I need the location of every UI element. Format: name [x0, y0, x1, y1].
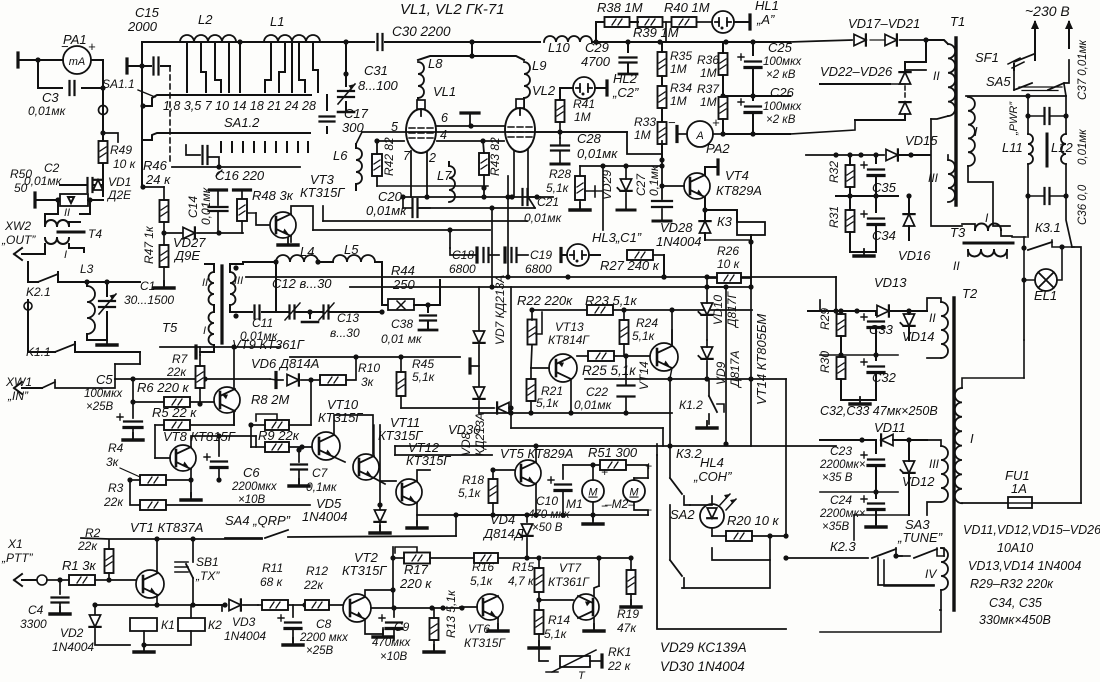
transformer T1 core — [954, 38, 957, 205]
svg-text:C1: C1 — [140, 279, 155, 293]
svg-text:470мкх: 470мкх — [372, 637, 412, 649]
capacitor C31 variable — [338, 91, 354, 97]
svg-text:C26: C26 — [770, 85, 795, 100]
wire VT4 collector — [705, 167, 716, 175]
svg-text:R35: R35 — [670, 49, 692, 63]
fuse FU1 — [1008, 497, 1032, 508]
svg-text:R34: R34 — [670, 81, 692, 95]
svg-text:C34: C34 — [872, 228, 896, 243]
diode VD22 — [820, 83, 890, 85]
motor M2 — [623, 480, 645, 502]
svg-text:A: A — [695, 130, 703, 142]
svg-text:VL2: VL2 — [532, 83, 556, 98]
svg-text:+: + — [645, 459, 652, 473]
svg-text:C17: C17 — [344, 106, 369, 121]
svg-text:VD11,VD12,VD15–VD26: VD11,VD12,VD15–VD26 — [963, 523, 1100, 537]
wire y197 — [403, 196, 553, 198]
svg-text:R37: R37 — [697, 82, 720, 96]
led HL4 — [700, 504, 724, 528]
svg-text:К2.3: К2.3 — [830, 539, 857, 554]
wire VD12 k23 row — [854, 514, 909, 516]
resistor R31 — [846, 210, 855, 232]
svg-text:0,01мк: 0,01мк — [524, 211, 563, 225]
resistor R43 — [479, 153, 489, 175]
svg-text:SA4 „QRP”: SA4 „QRP” — [225, 513, 291, 528]
resistor R41 — [556, 100, 565, 122]
svg-text:VT14 КТ805БМ: VT14 КТ805БМ — [754, 314, 769, 405]
wire R44 to bus — [428, 280, 440, 305]
svg-text:XW2: XW2 — [4, 219, 31, 233]
wire emitter row — [95, 604, 222, 606]
svg-text:1N4004: 1N4004 — [302, 509, 348, 524]
svg-text:VD17–VD21: VD17–VD21 — [848, 16, 920, 31]
svg-text:R19: R19 — [617, 607, 639, 621]
diode VD4 — [526, 515, 528, 522]
wire VT3 collector — [291, 206, 313, 230]
svg-text:L1: L1 — [270, 14, 284, 29]
wire VL2 pins — [513, 150, 515, 197]
svg-text:C7: C7 — [312, 466, 329, 480]
resistor R2 — [105, 549, 114, 573]
svg-text:24 к: 24 к — [145, 172, 171, 187]
svg-text:C37 0,01мк: C37 0,01мк — [1077, 39, 1089, 100]
connector XW2 — [14, 248, 45, 260]
svg-text:EL1: EL1 — [1034, 288, 1057, 303]
switch SB1 — [175, 562, 188, 572]
diode VD17 — [854, 34, 866, 45]
capacitor C10 electrolytic — [555, 483, 571, 485]
resistor R38 — [605, 17, 630, 27]
svg-text:II: II — [933, 69, 940, 83]
svg-text:×35 В: ×35 В — [822, 472, 853, 484]
resistor R28 — [575, 176, 585, 200]
svg-text:1А: 1А — [1011, 481, 1027, 496]
capacitor C7 — [291, 465, 307, 470]
transformer T5 winding I — [209, 312, 215, 345]
transformer T2 winding III — [941, 446, 948, 502]
transistor VT5 — [515, 460, 541, 486]
resistor R8 — [265, 420, 289, 430]
wire mid node — [836, 195, 898, 197]
capacitor C9 electrolytic — [386, 621, 402, 623]
switch K1.2 — [708, 379, 710, 396]
transformer T1 winding I — [968, 97, 975, 166]
svg-text:КТ361Г: КТ361Г — [548, 575, 590, 589]
wire mid right col — [725, 287, 727, 444]
wire rail y310 — [532, 309, 752, 311]
svg-text:R46: R46 — [143, 158, 168, 173]
svg-text:R23 5,1к: R23 5,1к — [585, 293, 638, 308]
svg-text:47к: 47к — [617, 621, 637, 635]
diode VD5 — [379, 505, 381, 510]
svg-text:6800: 6800 — [525, 262, 552, 276]
diode VD7 — [478, 287, 480, 331]
capacitor C11 — [243, 311, 252, 313]
diode VD8 — [473, 387, 484, 399]
svg-text:1М: 1М — [700, 66, 717, 80]
svg-text:3к: 3к — [361, 375, 375, 389]
svg-text:50: 50 — [14, 181, 28, 195]
svg-text:–М2–: –М2– — [604, 497, 635, 511]
svg-text:×25В: ×25В — [306, 645, 334, 657]
svg-text:1М: 1М — [574, 110, 591, 124]
svg-text:VT14: VT14 — [637, 361, 651, 390]
wire T1 I bottom — [968, 166, 1010, 226]
svg-text:1N4004: 1N4004 — [52, 640, 94, 654]
svg-text:R29–R32 220к: R29–R32 220к — [970, 577, 1054, 591]
resistor R44 — [388, 299, 414, 310]
svg-text:C9: C9 — [394, 620, 410, 634]
svg-text:„С2”: „С2” — [612, 85, 639, 100]
tube VL2 — [505, 108, 535, 152]
wire base rail VT12 — [380, 480, 396, 482]
wire RK1 left — [539, 648, 548, 661]
svg-text:R49: R49 — [110, 143, 132, 157]
inductor L6 — [356, 148, 362, 184]
wire to K2.1 — [28, 262, 38, 282]
svg-text:VD29 КС139А: VD29 КС139А — [660, 640, 747, 655]
capacitor C32 electrolytic — [868, 365, 884, 367]
svg-text:VD11: VD11 — [874, 420, 906, 435]
transformer T3 core — [964, 242, 1013, 245]
transistor VT8 — [170, 445, 196, 471]
transformer T1 winding II — [948, 44, 955, 116]
wire K2.3 drop — [878, 558, 934, 585]
svg-text:Д814Д: Д814Д — [482, 526, 524, 541]
svg-text:5,1к: 5,1к — [546, 181, 570, 195]
wire VT8 collector — [191, 436, 256, 447]
svg-text:5,1к: 5,1к — [412, 370, 436, 384]
resistor R36 — [719, 53, 728, 75]
svg-text:R33: R33 — [634, 115, 656, 129]
svg-text:330мк×450В: 330мк×450В — [979, 613, 1051, 627]
svg-text:×2 кВ: ×2 кВ — [766, 69, 796, 81]
wire rail y230 — [313, 229, 490, 231]
svg-text:0,01мк: 0,01мк — [28, 104, 67, 118]
svg-text:C35: C35 — [872, 180, 897, 195]
svg-text:C15: C15 — [135, 5, 160, 20]
wire C31 branch — [345, 42, 347, 86]
svg-text:2: 2 — [428, 151, 436, 165]
wire R29 node row — [820, 354, 898, 356]
svg-text:C20: C20 — [378, 189, 403, 204]
svg-text:VT6: VT6 — [468, 622, 490, 636]
ground K1 — [134, 650, 154, 653]
svg-text:VD30 1N4004: VD30 1N4004 — [660, 659, 745, 674]
svg-text:0,1мк: 0,1мк — [647, 164, 661, 196]
wire VT2 emitter — [365, 619, 383, 634]
svg-text:R26: R26 — [717, 244, 739, 258]
switch K3.1 — [1012, 236, 1026, 238]
svg-text:1М: 1М — [634, 128, 651, 142]
svg-text:R13 5,1к: R13 5,1к — [444, 589, 458, 638]
wire T2 bottom — [820, 610, 941, 632]
svg-text:HL3„С1”: HL3„С1” — [592, 230, 642, 245]
transformer T5 core — [220, 266, 223, 343]
svg-text:R40 1М: R40 1М — [664, 0, 710, 15]
resistor R32 — [846, 165, 855, 187]
svg-text:1N4004: 1N4004 — [656, 234, 702, 249]
svg-text:VD1: VD1 — [108, 175, 131, 189]
resistor R40 — [672, 17, 697, 27]
resistor R29 — [837, 314, 846, 336]
svg-text:III: III — [929, 457, 940, 471]
svg-text:К1.2: К1.2 — [679, 398, 703, 412]
resistor R42 — [372, 154, 382, 176]
svg-text:R17: R17 — [404, 562, 429, 577]
wire VT6 emitter — [497, 618, 499, 628]
svg-text:SA2: SA2 — [670, 507, 695, 522]
svg-text:C34, C35: C34, C35 — [989, 596, 1042, 610]
svg-text:R24: R24 — [636, 316, 658, 330]
tube VL1 — [406, 109, 436, 153]
relay K3 — [705, 210, 737, 222]
capacitor C8 electrolytic — [285, 621, 301, 623]
wire VT1 top — [81, 538, 262, 539]
svg-text:I: I — [64, 249, 67, 261]
svg-text:C18: C18 — [452, 248, 474, 262]
diode VD21 — [885, 34, 897, 45]
inductor L5 — [333, 255, 375, 262]
resistor R48 — [234, 188, 251, 191]
svg-text:22к: 22к — [77, 539, 98, 553]
wire VT7 emitter — [594, 586, 599, 596]
wire VT1 base — [109, 579, 137, 581]
connector XW1 — [14, 382, 42, 394]
wire top rail — [127, 65, 151, 67]
diode VD9 — [701, 347, 712, 359]
capacitor C35 electrolytic — [868, 168, 884, 170]
svg-text:30...1500: 30...1500 — [124, 293, 174, 307]
connector X1 — [14, 574, 36, 586]
wire y208 — [418, 207, 535, 209]
svg-text:0,1мк: 0,1мк — [306, 480, 338, 494]
resistor R24 — [620, 320, 629, 344]
wire SA1 vertical — [141, 42, 143, 187]
svg-text:К2: К2 — [208, 618, 222, 632]
resistor R49 — [99, 141, 108, 163]
svg-text:R30: R30 — [818, 351, 832, 373]
lamp HL2 neon — [573, 77, 595, 99]
wire L4 L5 node — [275, 262, 277, 312]
resistor R22 — [528, 320, 537, 345]
svg-text:C38: C38 — [391, 317, 413, 331]
motor M1 — [582, 480, 604, 502]
svg-text:C32: C32 — [872, 370, 897, 385]
svg-text:C29: C29 — [585, 40, 609, 55]
resistor R30 — [837, 357, 846, 379]
diode VD1 — [102, 180, 104, 196]
svg-text:Д2Е: Д2Е — [106, 188, 132, 202]
ground R28 — [570, 208, 590, 211]
svg-text:1N4004: 1N4004 — [224, 629, 266, 643]
capacitor C33 electrolytic — [868, 320, 884, 322]
capacitor C3 — [70, 81, 75, 95]
resistor R50 block — [35, 199, 60, 201]
wire pin6 row — [437, 125, 504, 127]
svg-text:RK1: RK1 — [608, 645, 631, 659]
wire VT1 collector — [156, 540, 158, 573]
svg-text:Д817Г: Д817Г — [725, 291, 739, 329]
resistor R5 — [164, 420, 190, 430]
svg-text:HL2: HL2 — [613, 71, 638, 86]
capacitor C38 — [427, 305, 429, 312]
svg-text:Д9Е: Д9Е — [173, 248, 200, 263]
svg-text:2200 мкх: 2200 мкх — [299, 632, 349, 644]
svg-text:6800: 6800 — [449, 262, 476, 276]
diode VD27 — [164, 232, 182, 234]
ground L3 C1 — [97, 343, 117, 346]
switch SA1.2 contacts — [220, 142, 222, 152]
svg-text:„А”: „А” — [756, 12, 775, 27]
svg-text:R22 220к: R22 220к — [517, 293, 573, 308]
svg-text:×50 В: ×50 В — [532, 522, 563, 534]
resistor R18 — [489, 479, 498, 503]
wire rail y455 — [395, 454, 492, 456]
svg-text:КТ315Г: КТ315Г — [464, 636, 506, 650]
svg-text:VL1, VL2 ГК-71: VL1, VL2 ГК-71 — [400, 1, 505, 18]
lamp EL1 — [1024, 248, 1035, 280]
svg-text:K1.1: K1.1 — [26, 345, 51, 359]
capacitor C22 — [618, 386, 635, 397]
diode VD11 — [820, 439, 876, 441]
svg-text:VL1: VL1 — [433, 84, 456, 99]
wire SB1 to VD3 — [193, 604, 225, 606]
svg-text:C21: C21 — [537, 195, 559, 209]
svg-text:L6: L6 — [333, 148, 348, 163]
resistor R19 — [627, 570, 636, 594]
svg-text:R32: R32 — [827, 161, 841, 183]
capacitor C37 — [1045, 108, 1050, 124]
wire VT11 chain — [374, 478, 385, 484]
lamp HL1 neon — [712, 11, 734, 33]
resistor R7 — [196, 366, 205, 388]
svg-text:mA: mA — [69, 56, 86, 68]
svg-text:R41: R41 — [573, 97, 595, 111]
svg-text:5,1к: 5,1к — [544, 627, 568, 641]
svg-text:C13: C13 — [337, 311, 359, 325]
svg-text:VD6 Д814А: VD6 Д814А — [251, 356, 319, 371]
svg-text:C22: C22 — [586, 385, 608, 399]
svg-text:C2: C2 — [44, 161, 60, 175]
svg-text:1М: 1М — [670, 94, 687, 108]
wire VT5 collector — [535, 446, 537, 462]
capacitor C12 trimmer — [290, 306, 295, 319]
wire VT5 emitter — [535, 484, 537, 515]
capacitor C27 — [661, 166, 663, 199]
svg-text:10 к: 10 к — [717, 257, 741, 271]
svg-text:R51 300: R51 300 — [588, 445, 638, 460]
inductor L9 — [524, 62, 530, 98]
inductor L7 — [449, 166, 455, 202]
svg-text:R48 3к: R48 3к — [252, 188, 294, 203]
svg-text:250: 250 — [392, 277, 415, 292]
resistor R1 — [69, 575, 95, 585]
svg-text:L2: L2 — [198, 12, 213, 27]
resistor R10 — [320, 375, 346, 385]
wire VT10 chain — [334, 415, 373, 454]
diode VD26 — [899, 102, 910, 114]
wire HL4 — [711, 496, 713, 504]
inductor L10 — [544, 36, 592, 42]
resistor R14 — [535, 610, 544, 634]
svg-text:VD8: VD8 — [459, 432, 473, 456]
svg-text:7: 7 — [403, 149, 411, 163]
svg-text:Д817А: Д817А — [728, 351, 742, 389]
svg-text:C8: C8 — [316, 617, 332, 631]
svg-text:1М: 1М — [700, 95, 717, 109]
wire VT3 emitter — [290, 236, 292, 242]
svg-text:R15: R15 — [512, 560, 534, 574]
capacitor C5 electrolytic — [124, 420, 142, 422]
svg-text:L11: L11 — [1002, 140, 1023, 155]
diode VD2 — [94, 605, 96, 615]
transformer T4 — [45, 220, 57, 226]
wire VT9 emitter — [233, 412, 235, 425]
wire L7 bus — [377, 185, 488, 187]
capacitor C14 — [210, 188, 227, 191]
capacitor C36 — [1045, 188, 1050, 204]
zener VD29 — [620, 179, 631, 191]
svg-text:22 к: 22 к — [607, 659, 632, 673]
svg-text:0,01мк: 0,01мк — [577, 146, 618, 161]
resistor R21 — [527, 379, 536, 401]
svg-text:0,01 мк: 0,01 мк — [381, 332, 423, 346]
svg-text:5,1к: 5,1к — [470, 574, 494, 588]
switch SA2 — [669, 505, 671, 560]
svg-text:VT9 КТ361Г: VT9 КТ361Г — [232, 337, 305, 352]
svg-text:К3.1: К3.1 — [1035, 220, 1061, 235]
svg-text:+: + — [88, 39, 96, 54]
capacitor C19 — [512, 248, 517, 262]
svg-text:C3: C3 — [42, 90, 59, 105]
svg-text:8...100: 8...100 — [358, 78, 399, 93]
wire to T5 — [139, 352, 141, 364]
svg-text:R14: R14 — [548, 613, 570, 627]
wire K1.1 — [28, 300, 55, 352]
svg-text:~230 В: ~230 В — [1025, 3, 1070, 19]
inductor L8 — [418, 62, 424, 98]
svg-text:М: М — [588, 487, 598, 499]
resistor R20 — [726, 531, 752, 541]
transistor VT10 — [312, 432, 340, 460]
switch SA3 — [914, 549, 937, 558]
svg-text:2200мк×: 2200мк× — [819, 508, 866, 520]
wire VD13 row — [819, 300, 821, 311]
svg-text:II: II — [64, 207, 70, 219]
capacitor C16 — [186, 145, 200, 155]
svg-text:К3.2: К3.2 — [676, 446, 703, 461]
ground C34 — [850, 251, 876, 253]
wire VT2 out row — [371, 607, 460, 609]
resistor R26 — [750, 242, 752, 287]
svg-text:T5: T5 — [162, 320, 178, 335]
transformer T5 winding II — [209, 272, 215, 305]
svg-text:VD2: VD2 — [60, 626, 84, 640]
wire VT2 collector — [365, 590, 393, 597]
svg-text:5,1к: 5,1к — [632, 329, 656, 343]
wire VT12 emitter — [417, 503, 535, 515]
diode VD15 — [806, 154, 884, 156]
wire T4 loop — [45, 200, 58, 226]
transistor VT7 — [573, 594, 599, 620]
switch K2.1 — [38, 274, 58, 282]
svg-text:КТ315Г: КТ315Г — [318, 410, 363, 425]
wire L8 drop — [418, 42, 472, 60]
svg-text:VD3: VD3 — [232, 615, 256, 629]
wire L5 to R44 — [382, 296, 388, 305]
svg-text:C36 0,0: C36 0,0 — [1077, 184, 1089, 225]
